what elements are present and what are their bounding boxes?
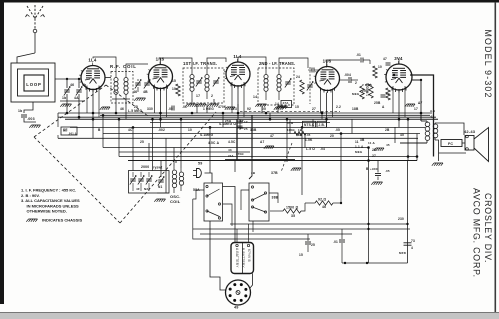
svg-text:IN MICROFARADS UNLESS: IN MICROFARADS UNLESS (27, 203, 80, 208)
svg-text:4C: 4C (128, 128, 133, 132)
svg-text:15: 15 (299, 253, 303, 257)
svg-text:LOOP: LOOP (26, 82, 41, 87)
svg-text:46: 46 (120, 107, 124, 111)
svg-text:.004: .004 (344, 73, 351, 77)
svg-text:14: 14 (275, 102, 279, 106)
svg-text:J.B.: J.B. (319, 123, 326, 127)
svg-text:35: 35 (291, 214, 295, 218)
svg-text:S.1MEG: S.1MEG (200, 133, 214, 137)
svg-text:10: 10 (188, 128, 192, 132)
svg-text:25: 25 (244, 127, 248, 131)
svg-text:470Ω: 470Ω (236, 152, 244, 156)
svg-text:11 Δ: 11 Δ (368, 141, 375, 145)
svg-text:25Ω: 25Ω (225, 119, 232, 123)
svg-text:.05: .05 (335, 128, 340, 132)
svg-text:.01: .01 (356, 53, 361, 57)
svg-text:18B: 18B (352, 107, 359, 111)
svg-text:3.3: 3.3 (232, 107, 237, 111)
svg-text:24: 24 (296, 75, 300, 79)
svg-text:1.1 Δ: 1.1 Δ (355, 145, 364, 149)
svg-text:17: 17 (414, 107, 418, 111)
svg-text:15: 15 (172, 79, 176, 83)
svg-text:2000: 2000 (141, 165, 149, 169)
svg-text:4B: 4B (143, 90, 148, 94)
svg-text:38B: 38B (272, 196, 279, 200)
svg-text:L.5 Ω: L.5 Ω (306, 147, 315, 151)
svg-text:25: 25 (311, 243, 315, 247)
svg-text:4A: 4A (74, 96, 79, 100)
svg-text:1b: 1b (62, 96, 66, 100)
svg-text:42-43: 42-43 (464, 129, 476, 134)
svg-text:10: 10 (172, 87, 176, 91)
svg-text:.05: .05 (385, 169, 390, 173)
svg-text:3. ALL CAPACITANCE VALUES: 3. ALL CAPACITANCE VALUES (21, 198, 80, 203)
svg-text:100Ω: 100Ω (287, 128, 295, 132)
svg-text:1U5: 1U5 (323, 59, 332, 64)
svg-text:B BATTERY: B BATTERY (241, 248, 245, 268)
svg-text:MFD: MFD (399, 251, 407, 255)
svg-text:46: 46 (70, 83, 74, 87)
svg-text:33B: 33B (250, 128, 257, 132)
svg-text:N1: N1 (158, 185, 163, 189)
svg-text:17: 17 (196, 94, 200, 98)
svg-text:4: 4 (411, 246, 413, 250)
svg-text:Δ7: Δ7 (418, 101, 422, 105)
svg-text:25B: 25B (374, 101, 381, 105)
svg-text:4.5C: 4.5C (228, 140, 236, 144)
svg-text:67½V B: 67½V B (247, 249, 251, 263)
svg-text:15: 15 (295, 105, 299, 109)
svg-text:COIL: COIL (170, 199, 181, 204)
svg-text:MEG: MEG (352, 92, 360, 96)
svg-text:27: 27 (372, 154, 376, 158)
svg-text:49: 49 (234, 306, 239, 310)
svg-text:CROSLEY DIV.: CROSLEY DIV. (483, 193, 493, 263)
svg-text:1.5K: 1.5K (305, 138, 313, 142)
svg-text:1b: 1b (18, 109, 22, 113)
svg-text:.01: .01 (333, 240, 338, 244)
svg-text:47: 47 (270, 134, 274, 138)
svg-text:SE: SE (63, 129, 67, 133)
svg-text:92: 92 (247, 107, 251, 111)
svg-text:29: 29 (362, 89, 366, 93)
svg-text:+90C: +90C (370, 167, 379, 171)
svg-text:73: 73 (411, 239, 415, 243)
svg-text:.05: .05 (168, 107, 173, 111)
svg-text:.003: .003 (27, 117, 35, 121)
svg-text:2: 2 (355, 81, 357, 85)
svg-text:3B: 3B (360, 138, 365, 142)
svg-text:2ND - I.F. TRANS.: 2ND - I.F. TRANS. (259, 61, 295, 66)
svg-text:230: 230 (398, 217, 404, 221)
svg-text:MODEL 9-302: MODEL 9-302 (483, 30, 493, 99)
svg-text:37B: 37B (271, 171, 278, 175)
svg-text:37Ω: 37Ω (287, 121, 294, 125)
svg-text:3B: 3B (251, 171, 256, 175)
svg-text:OTHERWISE NOTED.: OTHERWISE NOTED. (27, 209, 67, 214)
svg-text:470K: 470K (218, 105, 227, 109)
svg-text:.04: .04 (320, 147, 325, 151)
svg-text:2B: 2B (385, 128, 390, 132)
svg-text:1. I. F. FREQUENCY : 455 KC.: 1. I. F. FREQUENCY : 455 KC. (21, 188, 76, 193)
svg-text:25: 25 (140, 140, 144, 144)
svg-text:4F: 4F (136, 187, 140, 191)
svg-text:14: 14 (253, 95, 257, 99)
svg-text:28: 28 (372, 148, 376, 152)
svg-text:ryswt: ryswt (153, 166, 163, 170)
svg-text:47: 47 (383, 57, 387, 61)
svg-text:1 MEG Δ: 1 MEG Δ (366, 82, 370, 96)
svg-text:10: 10 (378, 65, 382, 69)
svg-text:2.2: 2.2 (336, 105, 341, 109)
svg-text:2: 2 (211, 94, 213, 98)
svg-text:2. B : 90V.: 2. B : 90V. (21, 193, 40, 198)
svg-text:5: 5 (175, 160, 177, 164)
svg-text:R.F. COIL: R.F. COIL (110, 64, 137, 69)
svg-text:INDICATES CHASSIS: INDICATES CHASSIS (42, 218, 82, 223)
svg-text:46: 46 (133, 90, 137, 94)
svg-text:MEG: MEG (355, 150, 363, 154)
svg-text:.05: .05 (306, 133, 311, 137)
svg-text:23A: 23A (228, 154, 234, 158)
svg-text:A.1: A.1 (430, 109, 435, 113)
svg-text:NTS.K: NTS.K (304, 123, 315, 127)
svg-text:43: 43 (228, 148, 232, 152)
svg-text:.001 Δ: .001 Δ (68, 132, 77, 136)
svg-text:1 MEG: 1 MEG (203, 107, 214, 111)
svg-text:AVCO MFG. CORP.: AVCO MFG. CORP. (472, 188, 482, 278)
svg-text:A7: A7 (260, 140, 265, 144)
svg-text:05: 05 (262, 107, 266, 111)
svg-text:45: 45 (386, 143, 390, 147)
svg-text:L.5 MEG: L.5 MEG (128, 109, 142, 113)
svg-text:1ST I.F. TRANS.: 1ST I.F. TRANS. (183, 61, 217, 66)
svg-text:.01: .01 (182, 105, 187, 109)
svg-text:27: 27 (312, 107, 316, 111)
svg-text:A BATTERY: A BATTERY (235, 248, 239, 268)
svg-text:330: 330 (147, 107, 153, 111)
svg-text:11: 11 (355, 140, 359, 144)
svg-text:.002: .002 (158, 128, 165, 132)
svg-text:N2: N2 (144, 187, 148, 191)
svg-text:59: 59 (198, 162, 202, 166)
svg-text:45: 45 (400, 133, 404, 137)
svg-text:FC: FC (448, 142, 453, 146)
svg-text:17: 17 (244, 120, 248, 124)
svg-text:20: 20 (330, 134, 334, 138)
